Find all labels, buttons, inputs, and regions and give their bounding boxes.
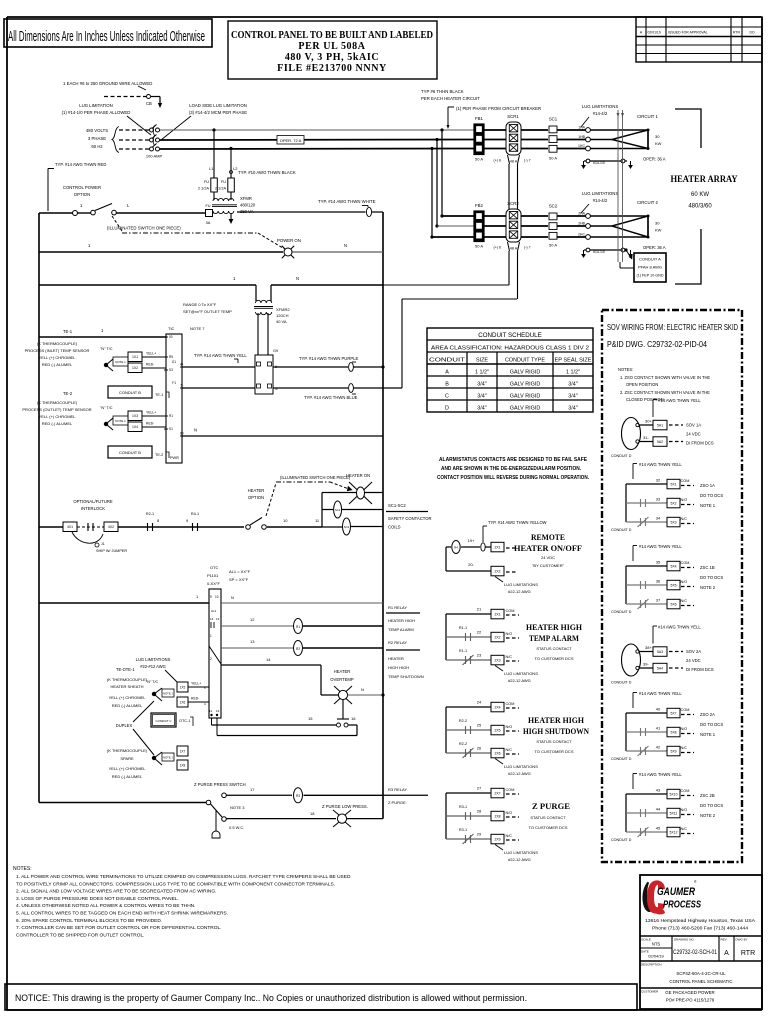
svg-text:GAUMER: GAUMER [657,886,695,898]
svg-text:5A3: 5A3 [657,650,663,654]
overtemp contact [212,700,358,736]
svg-text:11: 11 [209,709,212,713]
wire 22 NO [446,626,519,642]
svg-text:SPARE: SPARE [120,756,134,761]
wire 23 NC [446,649,519,665]
heater load CIRCUIT 1 [578,126,662,151]
svg-text:CONTROL POWER: CONTROL POWER [63,185,101,190]
svg-text:NOTICE: This drawing is the: NOTICE: This drawing is the property of … [15,993,527,1003]
svg-text:2X3: 2X3 [494,658,500,662]
svg-text:3/4": 3/4" [568,394,577,400]
title block frame [640,875,762,1009]
DCS label SOV 1A [686,423,714,446]
svg-text:36: 36 [656,579,661,584]
svg-text:1X5: 1X5 [180,685,186,689]
svg-text:2HB: 2HB [578,222,585,226]
svg-text:2X8: 2X8 [494,814,500,818]
svg-text:1X3: 1X3 [132,414,138,418]
svg-text:23: 23 [477,653,482,658]
svg-text:HEATER ARRAY: HEATER ARRAY [671,175,738,185]
remote heater on/off label [514,532,582,568]
svg-text:SC2: SC2 [549,204,558,209]
svg-text:SOV WIRING FROM: ELECTRIC HEAT: SOV WIRING FROM: ELECTRIC HEATER SKID [607,323,738,332]
svg-text:30+: 30+ [645,419,652,424]
wire 39- SOV 2A [639,662,683,673]
svg-text:OVERTEMP: OVERTEMP [330,677,354,682]
svg-text:2X7: 2X7 [494,791,500,795]
svg-text:18: 18 [310,811,315,816]
svg-text:N/C: N/C [681,517,688,521]
svg-text:480/3/60: 480/3/60 [688,204,712,210]
svg-text:D: D [445,406,449,412]
ground wire dashed feed [104,96,146,98]
svg-text:#14 AWG THWN YELL: #14 AWG THWN YELL [658,398,701,403]
svg-text:Phone (713) 460-5200 Fax (713): Phone (713) 460-5200 Fax (713) 460-1444 [652,926,749,931]
svg-text:5A1: 5A1 [657,423,663,427]
svg-text:0-XX°F: 0-XX°F [207,581,220,586]
per phase from breaker note [447,106,542,129]
svg-text:NOTE 1: NOTE 1 [700,503,716,508]
svg-text:1: 1 [80,203,83,208]
svg-text:TYP. #14 AWG THWN BLUE: TYP. #14 AWG THWN BLUE [304,395,358,400]
terminal 1X6 [177,697,209,707]
svg-text:P1101: P1101 [207,573,219,578]
svg-text:22: 22 [477,630,482,635]
svg-text:SC1: SC1 [335,508,341,512]
svg-text:HEATER SHEATH: HEATER SHEATH [111,684,144,689]
svg-text:2X6: 2X6 [494,751,500,755]
svg-text:B: B [445,382,449,388]
svg-text:5X8: 5X8 [670,730,676,734]
fuse block FB1 [474,116,484,162]
svg-text:24: 24 [477,700,482,705]
svg-text:(ILLUMINATED SWITCH ONE PIECE): (ILLUMINATED SWITCH ONE PIECE) [107,226,181,231]
svg-text:#14 AWG THWN YELL: #14 AWG THWN YELL [639,691,682,696]
svg-text:6. 20% SPARE CONTROL TERMINAL: 6. 20% SPARE CONTROL TERMINAL BLOCKS TO … [16,918,162,924]
alarm contact note [437,457,590,481]
svg-text:YELL (+) CHROMEL: YELL (+) CHROMEL [39,355,77,360]
svg-text:CONDUIT B: CONDUIT B [119,450,141,455]
svg-text:CONDUIT D: CONDUIT D [611,528,632,532]
svg-text:"N" T/C: "N" T/C [100,406,113,410]
svg-text:1X8: 1X8 [180,763,186,767]
svg-text:120CH: 120CH [276,313,289,318]
svg-text:AND ARE SHOWN IN THE DE-ENERGI: AND ARE SHOWN IN THE DE-ENERGIZED/ALARM … [441,466,582,472]
svg-text:"N" T/C: "N" T/C [146,680,159,684]
svg-text:R2-1: R2-1 [146,512,154,516]
svg-text:TYP. #14 AWG THWN YELL: TYP. #14 AWG THWN YELL [194,353,247,358]
svg-text:SIZE: SIZE [476,358,488,364]
OTC controller [209,589,221,718]
svg-text:30: 30 [655,134,660,139]
circuit 2 phase B wire [437,225,586,227]
svg-text:LUG LIMITATIONS: LUG LIMITATIONS [504,850,538,855]
svg-text:(3) #14-4/2 MCM PER PHASE: (3) #14-4/2 MCM PER PHASE [189,110,247,115]
svg-text:02/04/19: 02/04/19 [648,954,664,959]
Gaumer Process logo [642,880,701,915]
svg-text:PWR: PWR [170,456,179,460]
svg-text:5. ALL CONTROL WIRES TO BE TAG: 5. ALL CONTROL WIRES TO BE TAGGED ON EAC… [16,911,228,917]
svg-text:S1: S1 [169,427,173,431]
svg-text:50 A: 50 A [475,244,483,249]
svg-text:RED (-) ALUMEL: RED (-) ALUMEL [42,362,73,367]
svg-text:TE-2: TE-2 [155,453,163,457]
svg-text:PROCESS (INLET) TEMP SENSOR: PROCESS (INLET) TEMP SENSOR [25,348,90,353]
svg-text:ZSO 2A: ZSO 2A [700,712,715,717]
svg-text:N/C: N/C [506,748,513,752]
wire 35 ZSC 1B [626,560,694,571]
svg-text:HEATER HIGH: HEATER HIGH [528,715,584,725]
svg-text:27: 27 [477,786,482,791]
wire 1 to TIC [39,328,166,337]
POWER ON pilot light [277,238,301,258]
svg-text:YELL+: YELL+ [146,411,156,415]
duplex bracket [116,701,154,755]
svg-text:CONDUIT D: CONDUIT D [611,681,632,685]
wire 42 ZSO 2A [626,745,694,757]
svg-text:3/4": 3/4" [568,406,577,412]
svg-text:0.5 W.C.: 0.5 W.C. [229,825,244,830]
svg-text:CONTROLLER TO BE SHIPPED FOR O: CONTROLLER TO BE SHIPPED FOR OUTLET CONT… [16,932,144,938]
duplex thermocouple TE-OTE-1 [107,667,174,708]
svg-text:OPTION: OPTION [248,495,264,500]
conduit A run [617,110,635,268]
TIC neutral wire [182,428,383,437]
svg-text:TE-1: TE-1 [63,329,73,334]
svg-text:8: 8 [157,518,160,523]
svg-text:DUPLEX: DUPLEX [116,723,133,728]
remote heater on/off group [446,538,491,571]
svg-text:STATUS CONTACT: STATUS CONTACT [536,739,572,744]
svg-text:R2 RELAY: R2 RELAY [388,640,407,645]
svg-text:CONDUIT D: CONDUIT D [611,454,632,458]
svg-text:RED (-) ALUMEL: RED (-) ALUMEL [112,774,143,779]
svg-text:RANGE 0 To XX°F: RANGE 0 To XX°F [183,302,217,307]
svg-text:28: 28 [477,809,482,814]
solenoid coil SOV 1A [622,418,641,450]
load side lug limitation note [161,103,247,140]
svg-text:34: 34 [656,516,661,521]
svg-text:LUG LIMITATIONS: LUG LIMITATIONS [582,191,619,196]
svg-text:1X4: 1X4 [132,425,138,429]
wire 33 ZSO 1A [626,497,694,508]
svg-text:PROCESS: PROCESS [663,900,701,911]
svg-text:SOV 2A: SOV 2A [686,649,701,654]
phase C bus wire [160,148,586,151]
svg-text:39-: 39- [643,662,649,667]
svg-text:99: 99 [180,431,184,435]
svg-text:DESCRIPTION: DESCRIPTION [641,963,662,967]
heater high temp alarm label [526,622,582,661]
svg-text:PER UL 508A: PER UL 508A [298,41,365,52]
svg-text:HEATER: HEATER [388,656,404,661]
svg-text:2 1/2A: 2 1/2A [198,187,209,191]
wire 14 to overtemp [221,657,321,695]
svg-text:RTR: RTR [733,31,740,35]
svg-text:EP SEAL SIZE: EP SEAL SIZE [555,358,592,364]
conduit A tag box [634,253,666,282]
svg-text:SCP4Z-60A-4-2C-CR-UL: SCP4Z-60A-4-2C-CR-UL [676,971,726,976]
OPER 72A label [277,136,304,145]
svg-text:13616 Hempstead Highway Hous: 13616 Hempstead Highway Houston, Texas U… [645,918,755,923]
address lines [645,918,755,931]
conduit C tag [151,713,193,727]
svg-text:TIC: TIC [168,326,175,331]
svg-text:SC2: SC2 [344,525,350,529]
svg-text:YELL (+) CHROMEL: YELL (+) CHROMEL [109,695,147,700]
svg-text:33: 33 [656,497,661,502]
svg-text:5X10: 5X10 [670,792,678,796]
svg-text:N/O: N/O [506,725,513,729]
terminal 1X4 [128,422,166,432]
svg-text:DI FROM DCS: DI FROM DCS [686,667,714,672]
svg-text:Z PURGE: Z PURGE [532,801,570,811]
svg-text:35: 35 [656,560,661,565]
phase B bus wire [160,139,586,142]
svg-text:3/4": 3/4" [477,394,486,400]
R3 relay label [383,787,428,805]
Z purge press switch [39,782,246,821]
svg-text:ZSO 1A: ZSO 1A [700,483,715,488]
status group bracket z purge status [445,793,447,839]
line side lug limitation note [62,103,151,135]
svg-text:1: 1 [101,328,104,333]
svg-text:CONDUIT TYPE: CONDUIT TYPE [505,358,545,364]
svg-text:TYP. #14 AWG THWN PURPLE: TYP. #14 AWG THWN PURPLE [299,356,358,361]
svg-text:DO: DO [749,31,754,35]
svg-text:S3: S3 [169,368,173,372]
heater option rung wires [118,518,320,527]
svg-text:41: 41 [656,726,661,731]
svg-text:2HC: 2HC [578,233,585,237]
wire 36 ZSC 1B [626,579,694,590]
terminal 1X1 [128,352,166,362]
svg-text:XFMR: XFMR [240,196,252,201]
svg-text:24 VDC: 24 VDC [541,555,555,560]
svg-text:YELL (+) CHROMEL: YELL (+) CHROMEL [39,414,77,419]
svg-text:2. ZSC CONTACT SHOWN WITH VALV: 2. ZSC CONTACT SHOWN WITH VALVE IN THE [620,390,710,395]
SOV box title [607,323,738,349]
svg-text:COM: COM [681,479,690,483]
svg-text:YELL+: YELL+ [191,682,201,686]
svg-text:480 VOLTS: 480 VOLTS [86,128,108,133]
power on rung neutral side [293,243,384,252]
svg-text:ALARM/STATUS CONTACTS ARE DESI: ALARM/STATUS CONTACTS ARE DESIGNED TO BE… [439,457,588,463]
circuit breaker CB poles [146,125,163,159]
svg-text:C29732-02-SCH-01: C29732-02-SCH-01 [673,949,717,956]
HEATER ON pilot light [346,473,372,504]
svg-text:50 A: 50 A [549,156,557,161]
thermocouple TE-2 [22,391,128,430]
svg-text:5X6: 5X6 [670,602,676,606]
svg-text:#14-1/0: #14-1/0 [593,250,605,254]
terminal 2X2 remote [491,566,517,576]
svg-text:DRAWING NO: DRAWING NO [674,938,694,942]
notice bar [5,984,637,1010]
solenoid coil SOV 2A [622,644,641,676]
lug limitations note z purge status [495,845,538,863]
z purge status label [529,801,571,830]
terminal 1X8 [177,760,188,770]
control transformer tap L2 [229,147,238,178]
svg-text:DI FROM DCS: DI FROM DCS [686,441,714,446]
svg-text:25: 25 [477,723,482,728]
svg-text:OPER: 36 A: OPER: 36 A [643,157,666,162]
svg-text:#14-1/0: #14-1/0 [593,161,605,165]
svg-text:N: N [296,276,299,281]
svg-text:CIRCUIT 1: CIRCUIT 1 [637,114,659,119]
svg-text:INTERLOCK: INTERLOCK [81,506,105,511]
interlock terminal 4X1 [39,522,77,532]
svg-text:2. ALL SIGNAL AND LOW VOLTAGE: 2. ALL SIGNAL AND LOW VOLTAGE WIRES ARE … [16,889,216,895]
svg-text:SCALE: SCALE [641,938,651,942]
purge port symbol [212,810,220,838]
svg-text:RED-: RED- [191,697,199,701]
svg-text:GALV RIGID: GALV RIGID [510,394,541,400]
svg-text:ZSC 2B: ZSC 2B [700,793,715,798]
svg-text:SCR2: SCR2 [507,201,519,206]
svg-text:13: 13 [216,617,220,621]
dwg by cell [736,938,756,958]
svg-text:1 1/2": 1 1/2" [566,370,580,376]
phase A bus wire [160,129,586,131]
R2 relay label [386,640,424,679]
svg-text:5X12: 5X12 [670,830,678,834]
svg-text:TYP. #10 AWG THWN BLACK: TYP. #10 AWG THWN BLACK [238,170,296,175]
red wire note [48,162,106,211]
svg-text:3. LOSS OF PURGE PRESSURE DOES: 3. LOSS OF PURGE PRESSURE DOES NOT DISAB… [16,896,179,902]
svg-text:OPER. 72 A: OPER. 72 A [280,138,302,143]
terminal 1X2 [128,363,166,373]
purple wire [273,356,385,371]
safety contactor label [386,503,432,530]
svg-text:NOTE 1: NOTE 1 [700,732,716,737]
svg-text:TO CUSTOMER DCS: TO CUSTOMER DCS [529,825,568,830]
svg-text:17: 17 [250,787,255,792]
circuit 2 phase A wire [442,215,586,217]
wire 31- SOV 1A [639,435,683,446]
svg-text:LUG LIMITATIONS: LUG LIMITATIONS [504,764,538,769]
svg-text:N: N [194,428,197,433]
DCS label SOV 2A [686,649,714,672]
svg-text:R1: R1 [169,414,173,418]
svg-text:TEMP ALARM: TEMP ALARM [388,627,414,632]
svg-text:NOTE 1: NOTE 1 [115,360,126,364]
lug limitations note CIRCUIT 1 [581,104,618,127]
svg-text:CONDUIT D: CONDUIT D [611,838,632,842]
svg-text:N: N [361,687,364,692]
wire 27 COM [446,786,519,798]
svg-text:N/C: N/C [681,827,688,831]
yellow wire note SOV 2A [653,625,701,644]
svg-text:PROCESS (OUTLET) TEMP SENSOR: PROCESS (OUTLET) TEMP SENSOR [22,407,91,412]
svg-text:J1: J1 [101,542,105,546]
svg-text:XFMR2: XFMR2 [276,307,290,312]
svg-text:FU: FU [221,180,226,184]
OTC controller labels [207,565,251,586]
conduit B tag 1 [108,386,169,398]
svg-text:1X6: 1X6 [180,700,186,704]
yellow wire note SOV 1A [653,398,701,417]
svg-text:11: 11 [315,518,320,523]
TIC lower drive wire [182,387,255,389]
wire L to transformer [117,203,206,213]
svg-text:2X4: 2X4 [494,705,500,709]
svg-text:COM: COM [506,609,515,613]
wire 44 ZSC 2B [626,807,694,818]
svg-text:1HC: 1HC [578,144,585,148]
conduit schedule table [427,328,593,412]
contactor coil SC1 [322,501,383,518]
illuminated switch dashed link [107,216,285,249]
svg-text:R1 RELAY: R1 RELAY [388,605,407,610]
svg-text:N: N [231,595,234,600]
status group bracket heater high temp alarm [445,614,447,660]
svg-text:3 PHASE: 3 PHASE [88,136,106,141]
TIC supply transformer XFMR2 [254,300,290,324]
svg-text:A: A [640,31,643,35]
svg-text:2X2: 2X2 [494,635,500,639]
blue wire [273,384,402,400]
svg-text:9: 9 [186,518,189,523]
svg-text:L: L [127,203,130,208]
svg-text:REMOTE: REMOTE [531,532,565,542]
svg-text:NOTE 1: NOTE 1 [115,419,126,423]
bracket ZSO 2A [625,713,627,751]
svg-text:1: 1 [233,276,236,281]
svg-text:LUG LIMITATIONS: LUG LIMITATIONS [504,671,538,676]
yellow wire note ZSC 1B [633,544,682,561]
svg-text:SCR1: SCR1 [507,114,519,119]
wire 45 ZSC 2B [626,826,694,838]
svg-text:CONDUIT D: CONDUIT D [611,610,632,614]
svg-text:(ILLUMINATED SWITCH ONE PIECE): (ILLUMINATED SWITCH ONE PIECE) [280,475,351,480]
svg-text:#14 AWG THWN YELL: #14 AWG THWN YELL [639,544,682,549]
DCS label ZSO 2A [700,712,723,737]
svg-text:DO TO DCS: DO TO DCS [700,803,723,808]
control transformer tap L1 [209,128,216,178]
wire 25 NO [446,719,519,735]
svg-text:CB: CB [146,101,152,106]
svg-text:40 VA: 40 VA [276,319,287,324]
svg-text:1X7: 1X7 [180,749,186,753]
svg-text:KW: KW [655,228,662,233]
svg-text:SET@xx°F OUTLET TEMP: SET@xx°F OUTLET TEMP [183,309,232,314]
yellow wire note ZSO 1A [633,462,682,479]
svg-text:31-: 31- [643,435,649,440]
svg-text:42: 42 [656,745,661,750]
SCR power controller SCR1 [494,114,531,164]
incoming phase B dashed wire [119,139,149,141]
svg-text:44: 44 [656,807,661,812]
svg-text:(+) 6: (+) 6 [494,159,502,163]
left rail [38,213,40,803]
svg-text:N/C: N/C [681,746,688,750]
svg-text:24 VDC: 24 VDC [686,658,701,663]
svg-text:3/4": 3/4" [568,382,577,388]
wire 41 ZSO 2A [626,726,694,737]
svg-text:Z PURGE PRESS SWITCH: Z PURGE PRESS SWITCH [194,782,246,787]
svg-text:5X9: 5X9 [670,749,676,753]
svg-text:N/C: N/C [506,655,513,659]
svg-text:4: 4 [204,702,206,706]
contact R2-1 [146,512,154,531]
svg-text:TE-2: TE-2 [63,391,73,396]
svg-text:CONTACT POSITION WILL REVERSE: CONTACT POSITION WILL REVERSE DURING NOR… [437,475,590,481]
svg-text:GE PACKAGED POWER: GE PACKAGED POWER [665,990,714,995]
fuse FU 2 1/2A right [215,178,234,192]
svg-text:PO# PRE-PO 4115/1279: PO# PRE-PO 4115/1279 [666,998,715,1003]
